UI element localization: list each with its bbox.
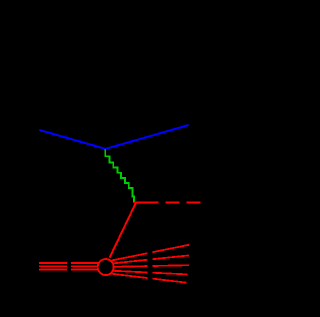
hadron fan line 1 <box>112 245 190 261</box>
photon wavy line (gamma*) <box>105 149 134 202</box>
scattered electron line e' <box>106 125 189 149</box>
struck quark line <box>110 203 136 258</box>
scattered quark dashed line <box>134 201 201 203</box>
proton blob circle <box>98 259 114 275</box>
hadronization gap bar <box>148 238 153 292</box>
hadron fan line 3 <box>115 265 190 267</box>
hadron fan line 4 <box>114 271 188 275</box>
electron-photon vertex <box>105 148 107 150</box>
hadron fan line 2 <box>114 255 189 263</box>
hadron fan line 5 <box>112 274 187 283</box>
incoming electron line e <box>39 130 105 149</box>
incoming proton triple line <box>39 263 99 270</box>
